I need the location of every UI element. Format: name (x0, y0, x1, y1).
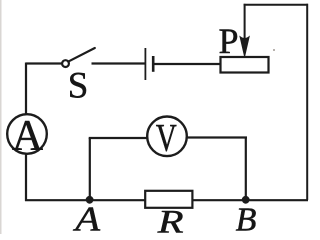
svg-text:R: R (157, 204, 184, 234)
rheostat P body (221, 57, 269, 73)
svg-text:A: A (72, 200, 101, 234)
svg-text:V: V (156, 116, 177, 159)
wire switch to battery (92, 62, 145, 64)
wire node A up to voltmeter branch (89, 138, 91, 198)
label R (157, 204, 184, 240)
scan edge left (0, 0, 2, 234)
wire top-left horizontal (26, 62, 62, 64)
rheostat wiper arrowhead (240, 37, 249, 57)
switch S lever (69, 48, 95, 61)
svg-text:A: A (12, 112, 43, 159)
wire battery to rheostat (154, 63, 220, 65)
wire left vertical upper (25, 63, 27, 115)
node B junction dot (242, 196, 250, 204)
wire voltmeter branch left horizontal (89, 137, 147, 139)
wire voltmeter right horizontal (187, 136, 247, 138)
wire ammeter to bottom (25, 154, 27, 201)
node A junction dot (86, 196, 94, 204)
wire wiper to top right (244, 4, 308, 6)
wire bottom left to resistor (25, 199, 145, 201)
switch S pivot circle (62, 60, 69, 67)
battery short plate (152, 56, 155, 72)
scan speck near rheostat (273, 49, 275, 51)
rheostat wiper arrow stem (244, 4, 246, 41)
svg-text:S: S (68, 66, 89, 107)
resistor R body (145, 191, 192, 208)
label A node (72, 200, 101, 239)
svg-text:B: B (236, 201, 257, 234)
voltmeter label V (156, 116, 177, 159)
ammeter A circle (7, 114, 47, 154)
wire resistor to node B and right (192, 199, 308, 201)
wire right vertical (306, 4, 308, 200)
svg-text:P: P (219, 21, 239, 61)
battery long plate (144, 48, 146, 80)
voltmeter V circle (147, 117, 187, 157)
wire voltmeter branch down to node B (245, 138, 247, 199)
